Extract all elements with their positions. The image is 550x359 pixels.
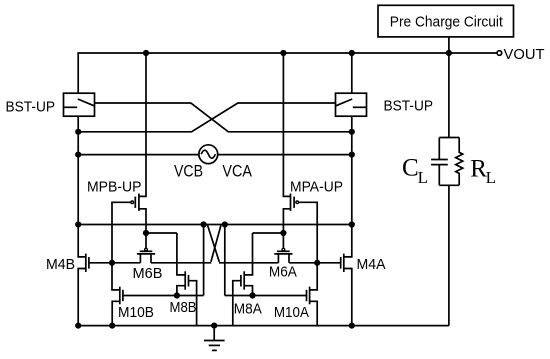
svg-text:BST-UP: BST-UP (6, 98, 56, 115)
junction mid rail left (75, 221, 81, 227)
junction top rail / MPA-UP source (280, 50, 286, 56)
transistor M6A (269, 233, 297, 281)
wire cross-couple left-out to right-low (95, 103, 352, 132)
wire load to ground rail (448, 185, 450, 325)
wire bottom rail (78, 325, 449, 327)
junction M8B source (174, 292, 180, 298)
svg-text:M6B: M6B (133, 265, 163, 282)
wire load top bar (439, 137, 459, 139)
wire MPA drain to M8A (253, 232, 284, 234)
svg-text:L: L (486, 168, 496, 187)
junction mid rail right (349, 221, 355, 227)
wire right rail top lead (351, 53, 353, 93)
junction right rail VC line (349, 152, 355, 158)
wire left drain line (89, 262, 140, 264)
junction bottom rail right rail (349, 323, 355, 329)
ground (204, 326, 225, 351)
wire X vertical left (203, 225, 205, 296)
svg-text:M4A: M4A (357, 256, 386, 273)
junction MPB gate / drain line (109, 260, 115, 266)
svg-text:VOUT: VOUT (504, 46, 545, 63)
wire X diagonal from R (211, 225, 221, 262)
transistor M4A (341, 254, 386, 326)
svg-text:C: C (402, 155, 419, 182)
svg-text:L: L (418, 168, 428, 187)
wire right drain line (219, 262, 278, 264)
transistor M6B (133, 233, 163, 282)
svg-text:VCA: VCA (222, 163, 252, 181)
svg-text:M8B: M8B (170, 299, 197, 316)
svg-text:MPA-UP: MPA-UP (290, 179, 343, 196)
wire MPB drain to M8B (146, 232, 177, 234)
svg-text:VCB: VCB (174, 163, 203, 181)
junction bottom rail M10B (109, 323, 115, 329)
svg-text:BST-UP: BST-UP (384, 97, 434, 114)
wire load bottom bar (439, 184, 459, 186)
junction left rail cross wire (75, 129, 81, 135)
svg-text:M8A: M8A (234, 301, 262, 318)
junction top rail / pre-charge stem (446, 50, 452, 56)
transistor MPB-UP (87, 53, 146, 263)
svg-text:MPB-UP: MPB-UP (87, 179, 142, 196)
wire VCB-VCA line (78, 154, 352, 156)
wire right bottom line (225, 295, 307, 297)
transistor M8A (233, 233, 262, 326)
wire top rail (78, 53, 497, 93)
capacitor CL (402, 138, 448, 187)
junction top rail / right rail (349, 50, 355, 56)
node VOUT (497, 46, 544, 63)
transistor M10B (112, 263, 154, 326)
wire mid rail (78, 224, 352, 226)
svg-text:M6A: M6A (269, 264, 297, 281)
svg-text:M4B: M4B (46, 256, 75, 273)
transistor MPA-UP (283, 53, 343, 263)
junction bottom rail left (75, 323, 81, 329)
junction top rail / MPB-UP source (143, 50, 149, 56)
wire X vertical right (224, 225, 226, 296)
source VCB/VCA (174, 145, 252, 181)
junction bottom rail ground (211, 323, 217, 329)
wire right drain line right part (289, 262, 341, 264)
junction left rail VC line (75, 152, 81, 158)
wire cross-couple left-low to right-in (78, 103, 335, 132)
junction MPA drain node (280, 230, 286, 236)
wire X diagonal from L (208, 225, 220, 262)
junction M8A source (249, 292, 255, 298)
wire left rail (box to M4B source) (78, 116, 86, 257)
junction MPA gate / drain line (314, 260, 320, 266)
pre charge circuit block (378, 5, 514, 37)
wire right rail (box to M4A source) (344, 116, 352, 257)
wire left drain line right part (151, 262, 211, 264)
svg-text:M10A: M10A (274, 304, 309, 321)
resistor RL (456, 138, 496, 188)
wire pre-charge stem (448, 37, 450, 53)
transistor M10A (274, 263, 317, 326)
transistor M8B (170, 233, 197, 326)
switch BST-UP left (6, 93, 95, 116)
svg-text:M10B: M10B (118, 304, 154, 321)
wire load stem (448, 53, 450, 138)
wire left bottom line (123, 295, 204, 297)
junction mid rail node L (201, 221, 207, 227)
junction mid rail node R (222, 221, 228, 227)
switch BST-UP right (336, 93, 434, 116)
svg-text:Pre Charge Circuit: Pre Charge Circuit (390, 13, 504, 30)
junction right rail cross wire (349, 129, 355, 135)
transistor M4B (46, 254, 89, 326)
junction MPB drain node (143, 230, 149, 236)
